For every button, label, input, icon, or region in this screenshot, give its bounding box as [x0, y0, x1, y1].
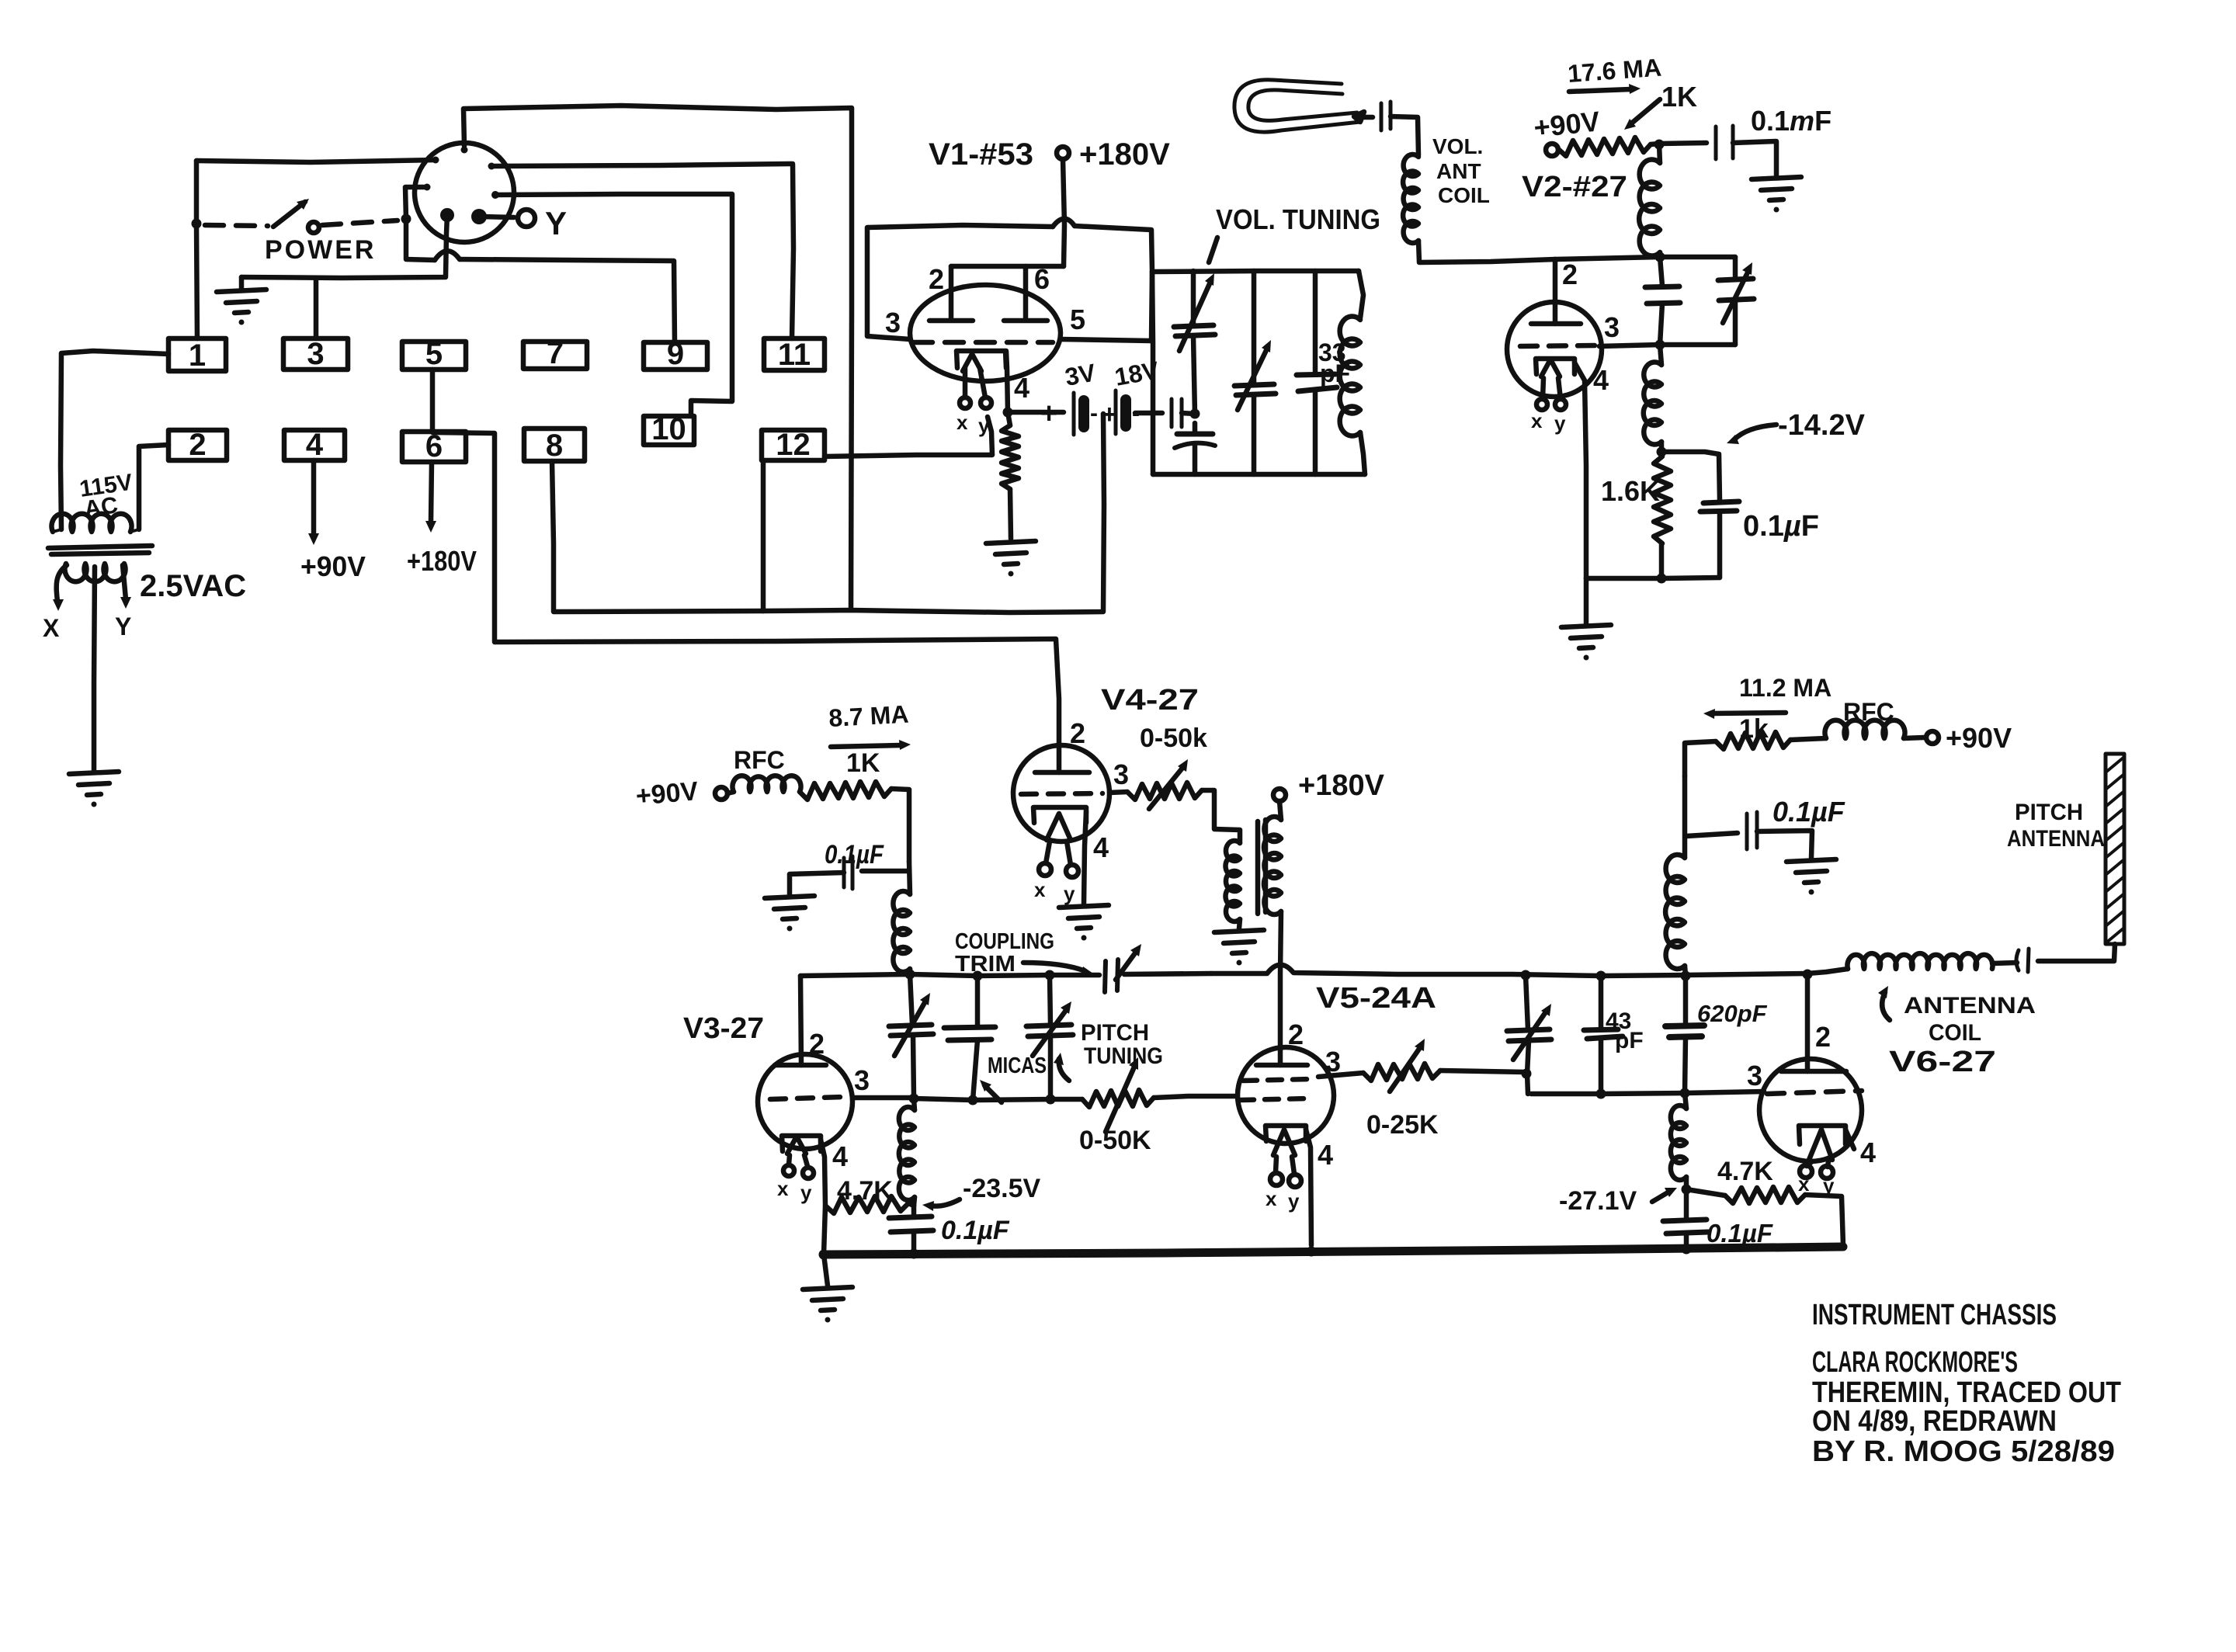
svg-text:POWER: POWER — [265, 235, 376, 265]
svg-text:1K: 1K — [846, 748, 880, 778]
tank left vertical — [1152, 272, 1153, 474]
V2 pin3 rail — [1599, 345, 1735, 346]
MICAS fixed capacitor — [975, 976, 981, 1026]
ground G10 — [1786, 859, 1836, 895]
terminal 4 — [284, 428, 345, 462]
svg-text:COIL: COIL — [1929, 1020, 1981, 1046]
wire socket bottom-left pin to ground/terminal 3 — [241, 215, 447, 278]
svg-text:620pF: 620pF — [1697, 1000, 1768, 1027]
tank top rail — [1152, 271, 1359, 272]
grid coil lower L4 — [1660, 345, 1661, 365]
RFC choke L9 — [1825, 720, 1905, 738]
V6 cathode — [1799, 1126, 1845, 1144]
svg-text:COIL: COIL — [1438, 183, 1490, 207]
resistor 1K (V3 plate) — [800, 782, 891, 800]
ground G11 — [803, 1287, 852, 1323]
svg-text:4: 4 — [1014, 372, 1029, 404]
svg-text:ON 4/89, REDRAWN: ON 4/89, REDRAWN — [1812, 1405, 2057, 1438]
V1 bias resistor to ground — [1002, 425, 1019, 489]
V2 mid capacitor — [1660, 257, 1662, 286]
svg-text:COUPLING: COUPLING — [955, 929, 1054, 954]
tube V6 — [1805, 973, 1811, 1071]
pitch oscillator grid rail — [800, 974, 1099, 976]
terminal Y — [518, 210, 535, 227]
V2 cathode — [1536, 359, 1575, 374]
cathode coil L7 (V3) — [914, 1098, 915, 1110]
coupling capacitor 0.1mF — [1659, 143, 1707, 144]
svg-text:5: 5 — [425, 337, 443, 371]
terminal +180V (V1 plates) — [1057, 147, 1069, 159]
svg-text:x: x — [1798, 1172, 1810, 1196]
svg-text:7: 7 — [547, 336, 564, 370]
svg-text:TRIM: TRIM — [955, 952, 1016, 977]
svg-text:VOL. TUNING: VOL. TUNING — [1216, 203, 1380, 235]
svg-text:3V: 3V — [1063, 359, 1098, 391]
terminal 10 — [644, 412, 694, 446]
svg-text:-23.5V: -23.5V — [963, 1174, 1040, 1203]
svg-text:X: X — [43, 614, 60, 642]
svg-text:V2-#27: V2-#27 — [1522, 171, 1627, 203]
ANTENNA COIL L11 — [1848, 953, 1993, 969]
V3 cathode — [782, 1136, 821, 1151]
svg-text:-14.2V: -14.2V — [1778, 409, 1866, 442]
wire socket left pin loop to terminal 9 — [405, 187, 435, 260]
terminal 9 — [644, 337, 707, 371]
RFC choke L5 — [727, 792, 734, 793]
svg-text:4: 4 — [832, 1140, 848, 1172]
tube V1 envelope — [910, 285, 1061, 381]
transformer T2 secondary — [1273, 789, 1286, 801]
svg-text:11: 11 — [778, 338, 811, 372]
terminal 7 — [523, 336, 587, 370]
svg-text:+90V: +90V — [1946, 722, 2012, 754]
PITCH ANTENNA — [2106, 754, 2124, 944]
svg-text:4: 4 — [1093, 831, 1109, 863]
svg-text:+90V: +90V — [300, 550, 366, 582]
svg-text:5: 5 — [1070, 304, 1085, 335]
rail hop over V5 grid — [1211, 965, 1807, 976]
bypass capacitor 0.1uF (V2) — [1661, 452, 1720, 501]
terminal 6 — [402, 429, 466, 463]
svg-text:y: y — [978, 414, 990, 437]
terminal 12 — [762, 428, 825, 462]
antenna feed capacitor — [2038, 944, 2115, 961]
svg-text:V3-27: V3-27 — [683, 1012, 764, 1045]
volume antenna loop — [1234, 80, 1360, 132]
svg-text:x: x — [1034, 878, 1046, 901]
ground G5 — [1752, 177, 1801, 213]
fixed capacitor 33pF — [1313, 271, 1318, 373]
svg-text:0.1mF: 0.1mF — [1751, 105, 1832, 137]
wire terminal 1 to transformer primary left — [61, 351, 168, 529]
svg-text:0.1µF: 0.1µF — [941, 1216, 1010, 1245]
tube V4 — [1013, 745, 1109, 842]
tube V2 — [1507, 302, 1602, 397]
wire terminal 12 stub down to bias net — [761, 462, 766, 611]
svg-text:10: 10 — [651, 412, 686, 446]
svg-text:MICAS: MICAS — [988, 1053, 1047, 1078]
svg-text:3: 3 — [307, 337, 324, 371]
terminal +90V (V6 plate) — [1926, 731, 1939, 744]
potentiometer 0-50k (V4 plate) — [1109, 792, 1127, 793]
svg-text:+180V: +180V — [1298, 769, 1385, 802]
lead X of secondary — [57, 565, 67, 602]
transformer T2 core — [1258, 820, 1266, 914]
svg-text:4: 4 — [1860, 1137, 1876, 1168]
V1 cathode structure — [957, 351, 1006, 368]
capacitor 0.1uF (V6 cathode) — [1684, 1189, 1689, 1219]
svg-text:Y: Y — [545, 205, 567, 241]
transformer T2 primary — [1225, 841, 1240, 921]
svg-text:1.6K: 1.6K — [1601, 475, 1660, 507]
ground G8 — [1059, 905, 1109, 941]
wire terminal 6 to +180V arrow — [431, 462, 432, 522]
center tap wire to ground — [94, 567, 95, 771]
svg-text:RFC: RFC — [734, 746, 785, 774]
terminal 11 — [764, 338, 825, 372]
svg-text:1: 1 — [189, 338, 206, 373]
bypass capacitor 0.1uF (V6 plate) — [1686, 833, 1738, 836]
ground G2 — [69, 772, 119, 807]
resistor 1K (V6 plate) — [1685, 741, 1716, 776]
PITCH TUNING variable capacitor — [1050, 975, 1050, 1025]
svg-text:V5-24A: V5-24A — [1316, 982, 1436, 1015]
transformer T1 primary 115V — [52, 514, 132, 532]
svg-text:y: y — [1554, 411, 1566, 435]
pin 6 lead and plate bar — [1004, 266, 1047, 321]
wire socket upper-left pin to node at x253 — [196, 160, 436, 162]
svg-text:12: 12 — [776, 428, 811, 462]
series capacitor to vol ant coil — [1363, 115, 1373, 120]
wire +180V down to plate bars — [1063, 159, 1064, 266]
svg-text:3: 3 — [1604, 311, 1620, 343]
wire terminal 12 to V1 heater y — [825, 417, 992, 456]
svg-text:4: 4 — [306, 428, 324, 462]
svg-text:4.7K: 4.7K — [1717, 1157, 1773, 1186]
svg-text:ANTENNA: ANTENNA — [1904, 993, 2036, 1019]
svg-text:6: 6 — [1034, 263, 1050, 295]
svg-text:ANT: ANT — [1436, 159, 1481, 183]
svg-text:0-50k: 0-50k — [1140, 724, 1207, 753]
V6 pin3 rail — [1531, 1091, 1764, 1094]
svg-text:9: 9 — [667, 337, 684, 371]
svg-text:VOL.: VOL. — [1432, 134, 1483, 158]
V3 pin3 rail to 0-50K — [1050, 1097, 1082, 1102]
tank coil L1 — [1359, 271, 1363, 318]
plate coil L10 (V6) — [1682, 776, 1688, 858]
svg-text:2: 2 — [1562, 259, 1578, 290]
wire bias net to battery tap — [763, 414, 1104, 613]
V5 cathode — [1266, 1126, 1306, 1141]
svg-text:y: y — [1823, 1174, 1835, 1197]
cathode coil L8 (V6) — [1685, 1093, 1686, 1109]
terminal 3 — [283, 337, 348, 371]
terminal 2 — [168, 428, 227, 462]
svg-text:THEREMIN, TRACED OUT: THEREMIN, TRACED OUT — [1812, 1376, 2121, 1409]
svg-text:V4-27: V4-27 — [1101, 684, 1199, 717]
svg-text:x: x — [957, 411, 968, 434]
lead Y of secondary — [123, 565, 126, 599]
ground G7 — [765, 896, 814, 932]
wire terminal 4 to +90V arrow — [311, 460, 317, 534]
wire to terminal 3 — [314, 278, 319, 338]
terminal 8 — [524, 429, 585, 463]
variable capacitor C2 — [1252, 271, 1257, 384]
plate bus connecting pins 2 and 6 — [951, 264, 1064, 269]
ground G3 — [986, 541, 1036, 577]
wire hop over +180V lead — [1053, 219, 1075, 227]
capacitor 43pF — [1599, 976, 1604, 1029]
svg-text:+90V: +90V — [634, 776, 700, 811]
pin 2 lead and plate bar — [929, 266, 973, 321]
svg-text:2: 2 — [189, 428, 206, 462]
variable capacitor (V6 tank) — [1526, 975, 1528, 1029]
VOL ANT COIL L2 — [1403, 154, 1418, 243]
svg-text:BY R. MOOG 5/28/89: BY R. MOOG 5/28/89 — [1812, 1435, 2115, 1468]
svg-text:pF: pF — [1615, 1028, 1644, 1053]
potentiometer 0-25K — [1363, 1064, 1440, 1081]
svg-text:+180V: +180V — [1079, 137, 1170, 172]
variable capacitor (V3 tank) — [910, 974, 912, 1025]
svg-text:2.5VAC: 2.5VAC — [140, 569, 246, 603]
ground G9 — [1214, 930, 1264, 966]
terminal 5 — [402, 337, 466, 371]
svg-text:8: 8 — [546, 429, 563, 463]
svg-text:y: y — [1064, 882, 1075, 905]
svg-text:y: y — [800, 1181, 812, 1204]
V2 cathode bottom wire — [1586, 578, 1720, 578]
tank bottom rail — [1153, 472, 1365, 477]
capacitor 0.1uF (V3 cathode) — [911, 1206, 917, 1216]
svg-text:2: 2 — [929, 263, 944, 295]
svg-text:17.6 MA: 17.6 MA — [1567, 54, 1662, 88]
svg-text:8.7 MA: 8.7 MA — [828, 700, 909, 732]
transformer T1 core — [48, 546, 152, 554]
wire hop over vertical — [435, 251, 460, 260]
battery B1 3V — [1008, 410, 1064, 415]
V4 cathode — [1033, 807, 1086, 823]
svg-text:3: 3 — [885, 307, 901, 338]
wire vertical x253 to terminal 1 — [196, 161, 197, 338]
V2 grid rail — [1555, 257, 1735, 259]
svg-text:2: 2 — [809, 1028, 825, 1060]
svg-text:V6-27: V6-27 — [1889, 1046, 1996, 1078]
svg-text:11.2 MA: 11.2 MA — [1739, 674, 1832, 702]
svg-text:1K: 1K — [1661, 81, 1697, 113]
grid coil upper L3 — [1659, 144, 1660, 163]
svg-text:3: 3 — [854, 1064, 870, 1096]
svg-text:+180V: +180V — [407, 545, 477, 577]
wire socket upper-right pin to terminal 11 — [491, 164, 793, 338]
ground G11 (bus) — [824, 1255, 828, 1286]
svg-text:ANTENNA: ANTENNA — [2007, 826, 2105, 852]
svg-text:+90V: +90V — [1533, 105, 1602, 144]
fixed capacitor below — [1177, 432, 1213, 437]
coupling trim capacitor (series) — [1105, 960, 1118, 992]
svg-text:0.1µF: 0.1µF — [1743, 510, 1819, 543]
svg-text:0.1µF: 0.1µF — [825, 840, 884, 869]
svg-text:2: 2 — [1288, 1019, 1304, 1050]
svg-text:3: 3 — [1747, 1060, 1762, 1091]
svg-text:AC: AC — [82, 492, 120, 522]
resistor 1K (V2 plate) — [1558, 137, 1651, 156]
capacitor 620pF — [1683, 976, 1689, 1025]
svg-text:INSTRUMENT CHASSIS: INSTRUMENT CHASSIS — [1812, 1299, 2057, 1331]
svg-text:-27.1V: -27.1V — [1559, 1186, 1637, 1216]
transformer T1 secondary 2.5VAC — [65, 564, 126, 581]
wire T2 secondary to V5 grid — [1280, 911, 1281, 1065]
switch S1 POWER — [205, 199, 398, 265]
variable capacitor C1 (vol tuning) — [1191, 271, 1196, 325]
svg-text:3: 3 — [1113, 758, 1129, 790]
svg-text:x: x — [1531, 409, 1543, 432]
tube V5 — [1238, 1047, 1334, 1144]
svg-text:2: 2 — [1815, 1021, 1831, 1053]
wire socket top pin to V1 grid net — [464, 106, 852, 610]
svg-text:2: 2 — [1070, 717, 1085, 749]
wire socket bottom-right pin to Y terminal — [479, 217, 514, 217]
svg-text:+: + — [1040, 397, 1057, 430]
chassis bus (thick) — [824, 1247, 1843, 1255]
wire terminal 8 to bias net — [552, 461, 763, 612]
svg-text:4: 4 — [1593, 364, 1609, 396]
ground G1 — [217, 290, 266, 325]
V5 pin3 to 0-25K — [1318, 1073, 1363, 1077]
series capacitor to tank — [1135, 411, 1162, 416]
svg-text:V1-#53: V1-#53 — [929, 137, 1033, 172]
svg-text:PITCH: PITCH — [2015, 800, 2083, 825]
svg-text:4: 4 — [1318, 1139, 1333, 1171]
svg-text:y: y — [1288, 1189, 1300, 1213]
ground G6 — [1561, 625, 1611, 661]
svg-text:Y: Y — [115, 613, 131, 640]
V2 variable capacitor — [1733, 257, 1738, 278]
svg-text:x: x — [777, 1177, 789, 1200]
plate loop wire pins 3-5 around top — [867, 225, 1053, 339]
svg-text:0-25K: 0-25K — [1366, 1110, 1439, 1140]
V1 cathode lead pin 4 — [1006, 351, 1008, 412]
wire socket right pin to terminal 10 — [495, 194, 732, 416]
svg-text:x: x — [1266, 1187, 1277, 1210]
svg-text:0-50K: 0-50K — [1079, 1126, 1151, 1155]
plate coil L6 (V3) — [909, 862, 910, 894]
connector socket P1 — [415, 143, 514, 242]
resistor 1.6K — [1654, 456, 1671, 543]
V1 grid dashed line — [914, 340, 1053, 345]
wire terminal 2 to transformer primary right — [139, 445, 168, 529]
svg-text:PITCH: PITCH — [1081, 1020, 1149, 1046]
svg-text:-: - — [1090, 401, 1098, 426]
terminal 1 — [168, 338, 226, 373]
svg-text:0.1µF: 0.1µF — [1707, 1219, 1773, 1248]
svg-text:TUNING: TUNING — [1084, 1043, 1163, 1069]
tube V3 — [800, 976, 801, 1065]
wire terminal 5 to V4 grid — [432, 370, 1059, 772]
svg-text:0.1µF: 0.1µF — [1772, 796, 1845, 828]
potentiometer 0-50K (pitch tuning) — [1082, 1090, 1154, 1107]
svg-text:CLARA ROCKMORE'S: CLARA ROCKMORE'S — [1812, 1346, 2018, 1379]
